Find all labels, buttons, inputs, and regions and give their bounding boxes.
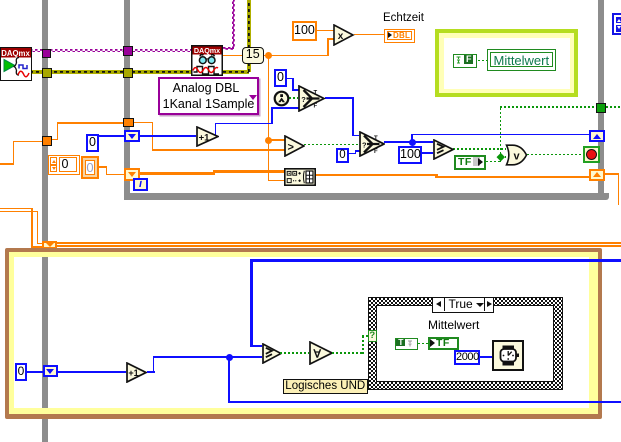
wire: orange into tunnel1 xyxy=(13,141,43,143)
wire: orange from left edge xyxy=(0,163,14,165)
wire: blue 0 const to select2 f xyxy=(349,153,356,155)
boolean constant True xyxy=(395,338,419,350)
label Mittelwert (case) xyxy=(428,318,479,332)
greater-or-equal node xyxy=(433,139,454,160)
greater-or-equal node lower xyxy=(262,343,282,364)
wire: orange multiply to DBL indicator xyxy=(354,34,385,36)
shift register left orange xyxy=(124,168,140,181)
shift register right blue xyxy=(589,130,605,142)
wire: orange tunnel1 to riser xyxy=(52,139,58,141)
wire: blue long run to right SR xyxy=(411,134,589,136)
shift register lower blue xyxy=(43,365,58,377)
wire: green dotted tunnel to edge xyxy=(606,106,621,108)
wire: orange riser x152 xyxy=(152,122,154,151)
junction dot blue xyxy=(409,139,416,146)
label Logisches UND xyxy=(283,379,368,394)
wire: green dotted geq to or xyxy=(453,148,506,150)
increment node +1 lower xyxy=(126,362,147,383)
and array elements node xyxy=(309,341,333,365)
svg-text:DAQmx: DAQmx xyxy=(1,49,30,58)
select node 1 xyxy=(298,85,326,112)
outer loop border segment inside lower structure xyxy=(42,257,48,408)
or gate xyxy=(505,144,528,166)
tunnel: green boolean out xyxy=(596,103,606,113)
wire: blue junction to geq xyxy=(412,141,433,143)
svg-text:+1: +1 xyxy=(199,133,211,144)
wire: green dotted to tunnel xyxy=(500,106,596,108)
indicator DBL Echtzeit xyxy=(384,29,415,44)
while loop right border xyxy=(598,0,604,200)
iteration terminal i xyxy=(133,178,148,192)
wire: orange riser to multiply xyxy=(327,38,329,56)
replace array subset node xyxy=(284,168,316,186)
junction dot orange B xyxy=(265,137,272,144)
search highlight box around Mittelwert terminal xyxy=(435,29,578,97)
greater-than node xyxy=(284,135,305,157)
stop button terminal xyxy=(583,146,600,163)
wire: error cluster olive h1 xyxy=(30,70,191,74)
wire: orange tunnel2 to riser x152 xyxy=(134,122,153,124)
label box Mittelwert xyxy=(487,49,556,71)
svg-text:?: ? xyxy=(301,95,306,104)
select node 2 xyxy=(359,131,385,157)
label Echtzeit xyxy=(383,12,424,24)
wire: orange 15 to junction xyxy=(263,55,328,57)
boolean terminal Mittelwert (F) xyxy=(453,54,477,68)
tunnel: orange on loop border xyxy=(123,118,134,128)
wire: orange array from left shift register xyxy=(140,172,215,175)
wire: blue 0 to lower SR xyxy=(27,371,43,373)
svg-text:?: ? xyxy=(362,141,367,150)
shift register right orange xyxy=(589,169,605,181)
wire: orange cluster from left edge (double line) xyxy=(0,208,33,209)
junction diamond green xyxy=(496,153,504,161)
wire: green dotted and-array to case selector xyxy=(332,352,364,354)
wire: orange junction to gt top input xyxy=(269,139,285,141)
wire: DAQmx task purple h2 xyxy=(223,47,234,50)
wire: blue 2000 to wait xyxy=(480,356,492,358)
wire: green dotted gt to select2 xyxy=(304,144,359,146)
wire: blue 0 const to select1 t xyxy=(287,78,294,80)
constant 0 (left of loop) xyxy=(86,134,99,152)
junction dot orange A xyxy=(265,52,272,59)
wire: dotted T to local xyxy=(418,343,428,345)
shift register left blue xyxy=(124,130,140,142)
wire: orange to tunnel2 xyxy=(57,122,125,124)
wire: orange 100 to multiply xyxy=(316,30,334,32)
wire: green dotted geq to and-array xyxy=(280,352,309,354)
polymorphic selector: Analog DBL 1Kanal 1Sample xyxy=(158,77,259,116)
wire: orange array bundle out to right SR xyxy=(316,174,437,177)
wire: orange exits loop right xyxy=(605,173,619,175)
constant 0 (select1 t) xyxy=(274,69,287,87)
wire: error cluster olive h2 xyxy=(223,70,249,74)
numeric constant grayed 0 xyxy=(81,156,99,179)
wire: blue +1 out up to junction xyxy=(147,371,155,373)
svg-text:DAQmx: DAQmx xyxy=(194,46,220,55)
wire: blue 100 to geq xyxy=(422,152,433,154)
wire: orange long run y149 to greater-than xyxy=(152,149,285,151)
wire: blue +1 output up and right xyxy=(215,123,217,138)
wait ms node xyxy=(492,340,524,371)
wire: blue select1 out to select2 t xyxy=(325,97,354,99)
DAQmx read icon xyxy=(191,45,223,76)
first-call node xyxy=(273,90,290,107)
wire: orange riser bottom into bundle xyxy=(268,180,285,182)
local variable TF (read) xyxy=(454,155,486,170)
wire: error cluster olive vertical to top xyxy=(247,0,251,72)
wire: blue select2 out to junction xyxy=(384,141,412,143)
wire: green dotted to or bottom xyxy=(501,156,506,158)
tunnel: olive on loop border xyxy=(123,68,133,78)
wire: green dotted circle to select1 xyxy=(289,97,298,99)
constant 0 (lower loop) xyxy=(15,363,27,381)
tunnel: purple on loop border xyxy=(123,46,133,56)
while loop bottom border xyxy=(124,193,609,200)
wire: blue 0 to left shift register xyxy=(99,135,124,137)
wire: blue array from right edge xyxy=(252,259,621,262)
wire: blue bottom run to right edge xyxy=(228,401,621,403)
wire: orange cluster long run (double line) xyxy=(56,242,621,244)
tunnel: purple on outer border xyxy=(42,49,51,58)
wire: green dotted riser x500 xyxy=(500,106,502,162)
tunnel: olive on outer border xyxy=(42,68,52,78)
outer while loop left border xyxy=(42,0,48,442)
wire: orange riser left xyxy=(13,141,15,165)
while loop left border xyxy=(124,0,130,200)
constant 100 (threshold) xyxy=(398,146,422,164)
constant 100 (top) xyxy=(292,21,317,41)
wire: orange read icon to 15 xyxy=(223,55,243,57)
svg-text:T: T xyxy=(374,136,378,142)
wire: blue junction to geq lower xyxy=(229,356,262,358)
junction dot blue lower xyxy=(226,354,233,361)
wire: orange riser x57 xyxy=(57,122,59,140)
numeric control with spinner xyxy=(48,155,80,175)
increment node +1 xyxy=(196,126,219,147)
case selector label True xyxy=(432,297,494,313)
wire: green dotted or to stop xyxy=(527,154,583,156)
wire: blue junction down to bottom run xyxy=(228,357,230,403)
svg-text:F: F xyxy=(314,104,318,110)
wire: blue SR to +1 xyxy=(140,135,196,137)
case structure xyxy=(368,297,563,390)
wire: green dotted local to riser xyxy=(486,161,500,163)
svg-text:T: T xyxy=(314,91,318,97)
wire: orange numeric pair to SR xyxy=(99,166,107,168)
numeric spinner cut at top right edge xyxy=(612,13,621,35)
tunnel: orange on outer border xyxy=(42,136,52,147)
svg-text:x: x xyxy=(338,31,344,42)
constant 15 xyxy=(242,47,264,64)
wire: DAQmx task purple vertical to top xyxy=(232,0,235,49)
wire: DAQmx task purple h1 xyxy=(30,49,191,52)
local variable Mittelwert (write) xyxy=(428,337,459,351)
wire: orange big riser x268 xyxy=(268,55,270,181)
multiply node xyxy=(333,24,355,46)
svg-text:v: v xyxy=(514,150,521,162)
svg-text:>: > xyxy=(288,141,294,153)
wire: blue junction up to y134 xyxy=(411,134,413,142)
svg-text:F: F xyxy=(374,149,378,155)
constant 2000 xyxy=(454,350,480,365)
wire: blue SR to +1 lower xyxy=(58,371,126,373)
tunnel: orange cluster terminal on outer border xyxy=(42,241,57,249)
constant 0 (select2 f) xyxy=(336,148,349,163)
svg-text:+1: +1 xyxy=(128,368,138,378)
DAQmx start task icon xyxy=(0,47,32,81)
wire: dotted terminal to label xyxy=(478,60,487,62)
lower while loop highlighted border xyxy=(5,248,602,419)
svg-text:∀: ∀ xyxy=(312,349,321,361)
case selector tunnel ? xyxy=(368,330,377,342)
